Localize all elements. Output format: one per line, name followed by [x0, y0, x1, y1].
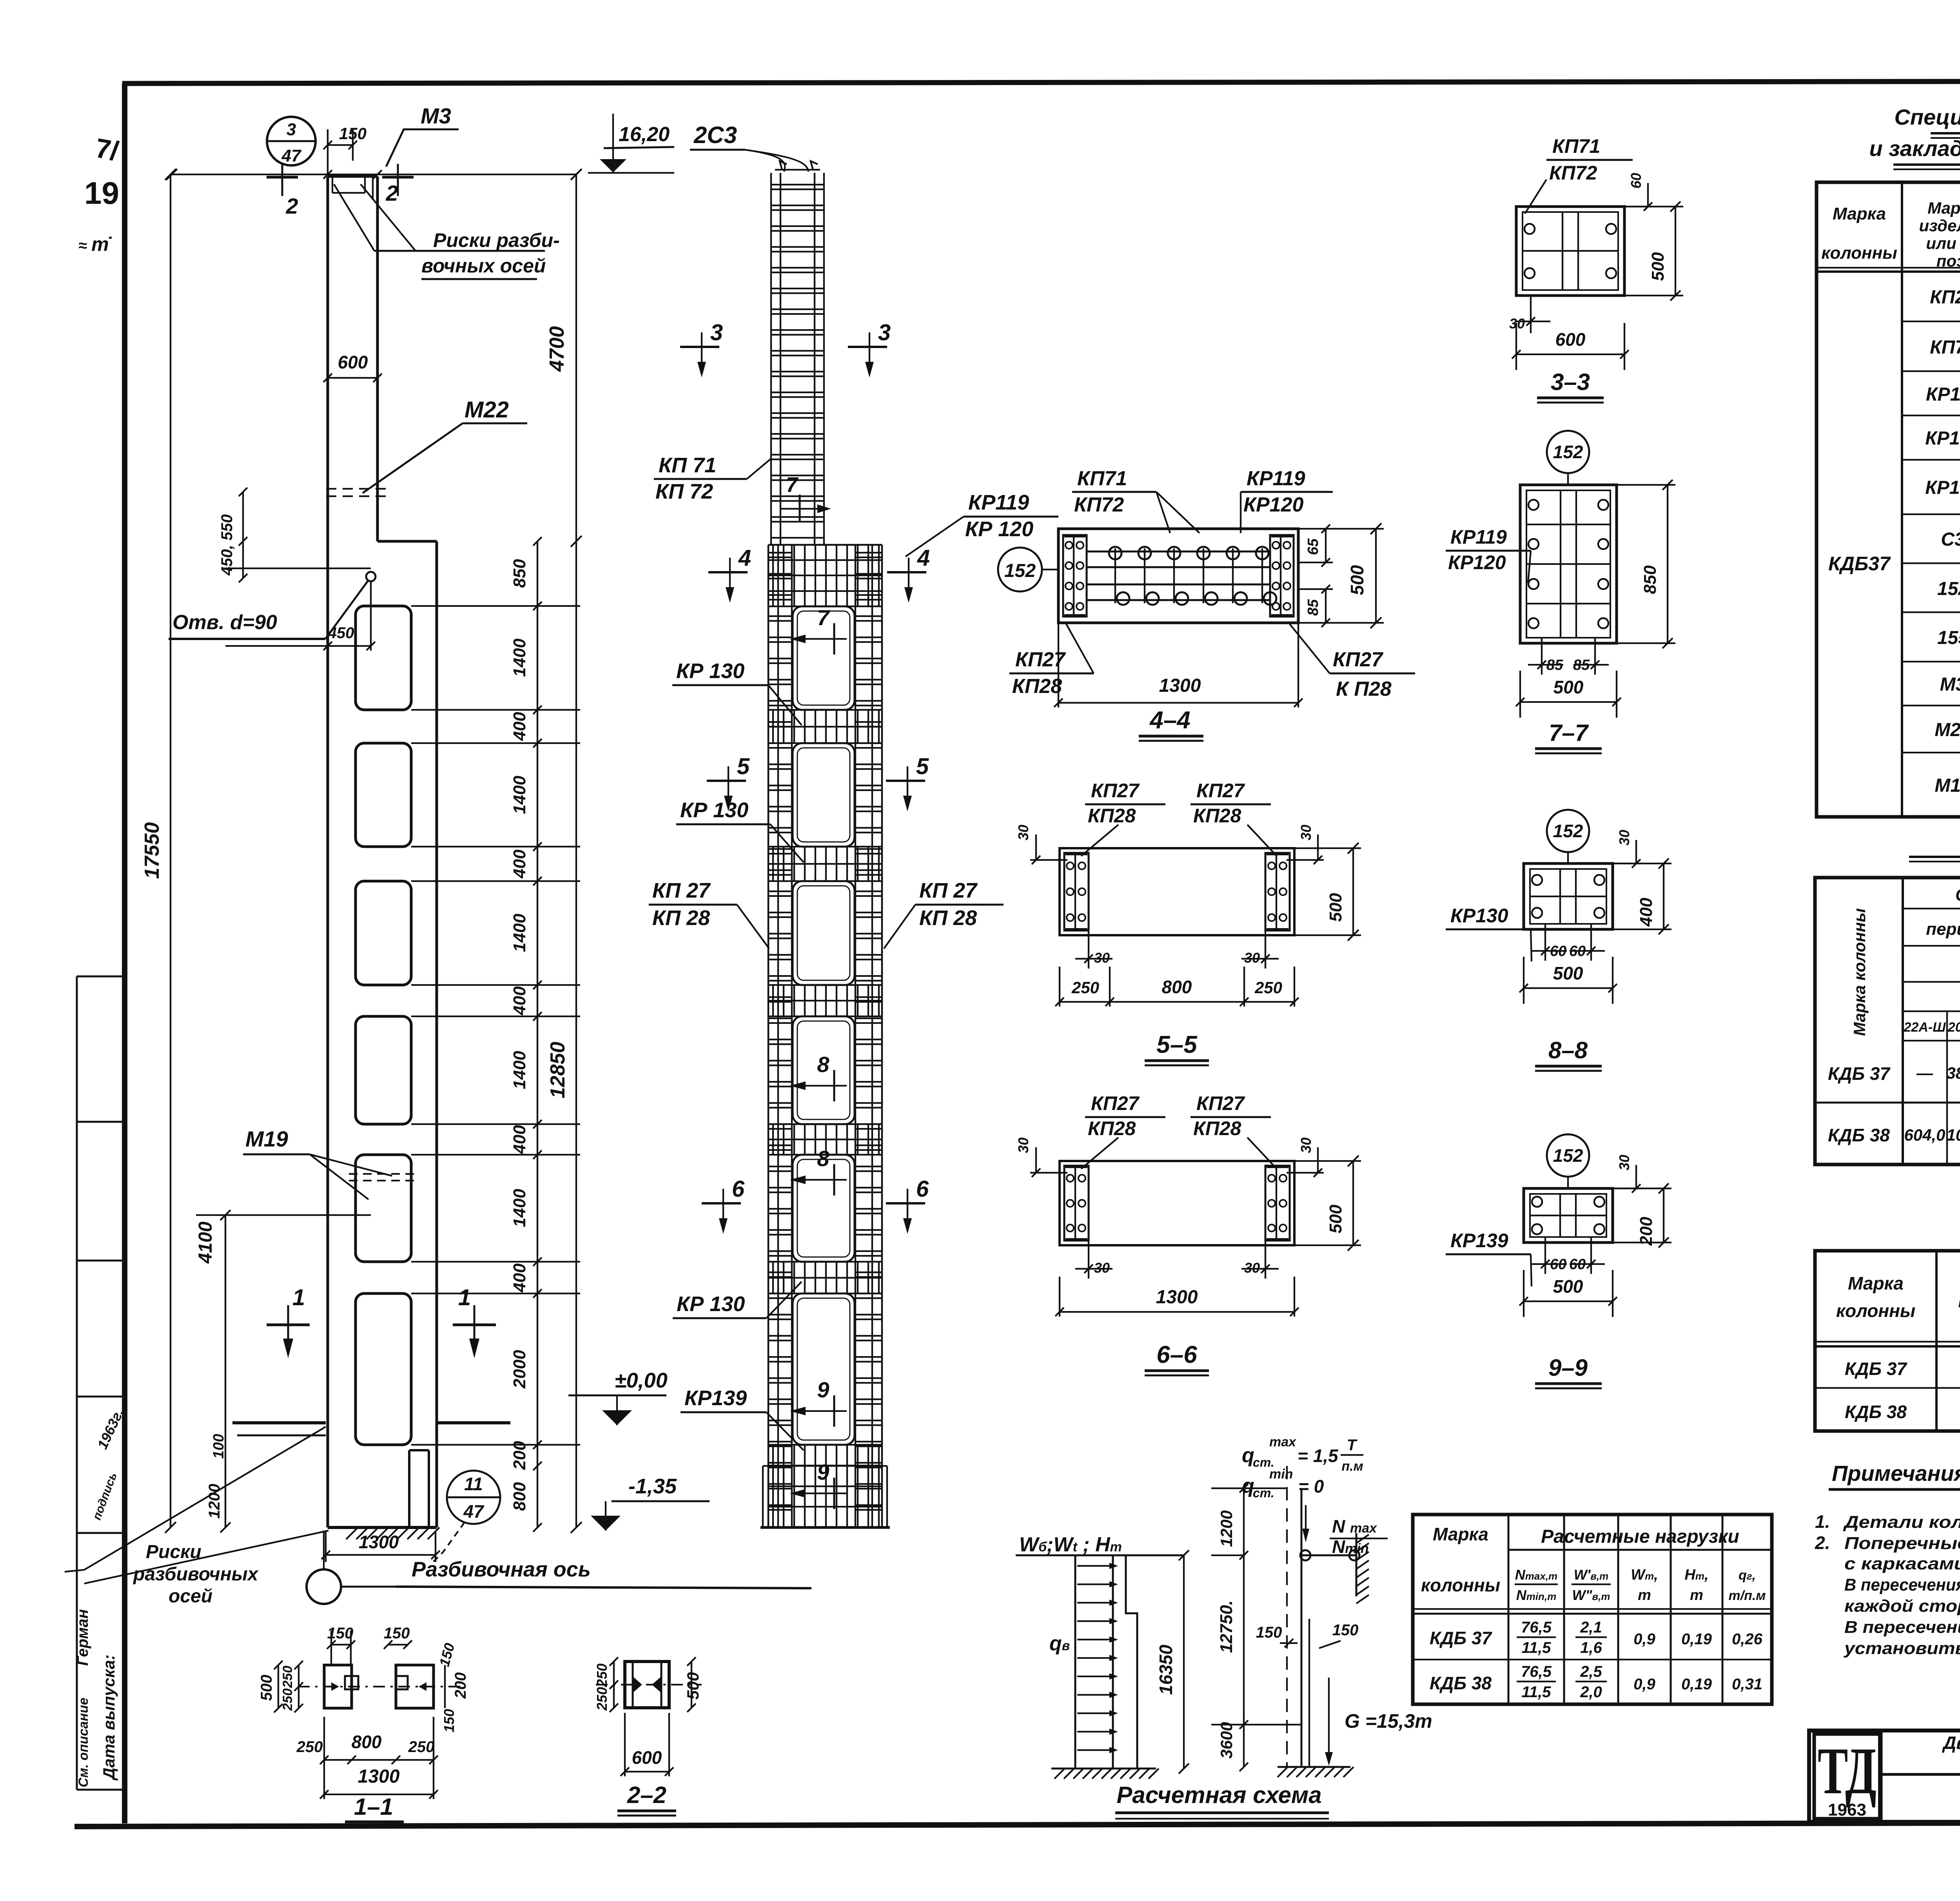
- section mark 1 right: [453, 1324, 496, 1326]
- title block: [1809, 1730, 1960, 1822]
- svg-text:250: 250: [594, 1663, 610, 1687]
- svg-text:разбивочных: разбивочных: [132, 1564, 259, 1585]
- svg-text:G =15,3т: G =15,3т: [1345, 1710, 1432, 1732]
- svg-text:Риски разби-: Риски разби-: [433, 229, 560, 251]
- svg-text:500: 500: [1326, 893, 1345, 922]
- svg-text:250: 250: [280, 1666, 295, 1689]
- svg-text:КР130: КР130: [1450, 905, 1508, 927]
- svg-text:400: 400: [510, 1263, 529, 1293]
- svg-text:КДБ 38: КДБ 38: [1828, 1125, 1890, 1145]
- svg-text:500: 500: [1553, 963, 1583, 983]
- C3 hooks at cage top: [775, 169, 820, 171]
- section 1-1: [324, 1665, 352, 1708]
- svg-text:6: 6: [916, 1176, 929, 1202]
- svg-text:КР130: КР130: [1925, 428, 1960, 449]
- sheet frame border: [122, 81, 1960, 83]
- svg-text:5: 5: [737, 754, 750, 779]
- svg-text:КП28: КП28: [1193, 1117, 1241, 1139]
- svg-text:с каркасами перемычек .: с каркасами перемычек .: [1844, 1554, 1960, 1573]
- svg-text:1: 1: [458, 1285, 471, 1310]
- left outer dim 17550 x=435: [170, 174, 171, 1527]
- svg-text:85: 85: [1305, 599, 1321, 616]
- dim 600: [328, 377, 377, 379]
- wall hatch: [1356, 1533, 1357, 1596]
- svg-text:М3: М3: [1940, 674, 1960, 695]
- svg-text:М3: М3: [421, 103, 451, 128]
- svg-text:76,5: 76,5: [1521, 1619, 1552, 1636]
- svg-text:250: 250: [594, 1687, 610, 1711]
- svg-text:КП71: КП71: [1930, 337, 1960, 358]
- 152 circle for 4-4: [998, 548, 1042, 591]
- svg-text:М19: М19: [1935, 775, 1960, 796]
- svg-text:0,26: 0,26: [1732, 1631, 1763, 1648]
- svg-text:КР120: КР120: [1243, 493, 1303, 516]
- svg-text:КР 120: КР 120: [965, 517, 1033, 541]
- svg-text:3: 3: [287, 120, 296, 139]
- right inner dim ladder x=1371: [537, 541, 538, 1527]
- svg-text:изделия: изделия: [1919, 216, 1960, 235]
- svg-text:47: 47: [463, 1501, 485, 1522]
- svg-text:800: 800: [352, 1732, 382, 1752]
- svg-text:500: 500: [1326, 1204, 1345, 1233]
- M22 embedded plate dashed: [326, 488, 386, 490]
- svg-text:min: min: [1269, 1467, 1293, 1482]
- svg-text:30: 30: [1298, 1137, 1314, 1153]
- svg-text:30: 30: [1094, 950, 1110, 966]
- svg-text:800: 800: [1162, 977, 1192, 997]
- svg-text:КДБ37: КДБ37: [1828, 553, 1891, 575]
- svg-text:382,4: 382,4: [1946, 1064, 1960, 1082]
- svg-text:600: 600: [338, 352, 368, 372]
- svg-text:2: 2: [385, 181, 398, 205]
- svg-text:-1,35: -1,35: [628, 1475, 677, 1498]
- svg-text:Расчетная схема: Расчетная схема: [1116, 1782, 1321, 1808]
- svg-text:КР120: КР120: [1448, 551, 1506, 573]
- cage base feet: [763, 1465, 887, 1467]
- svg-text:47: 47: [281, 146, 302, 165]
- svg-text:КР119: КР119: [1450, 526, 1507, 548]
- svg-text:250: 250: [296, 1738, 323, 1756]
- svg-text:400: 400: [1637, 898, 1656, 927]
- svg-text:152: 152: [1553, 821, 1583, 841]
- cage wide part: [768, 545, 769, 1527]
- section 3&#8211;3: [1516, 207, 1624, 296]
- section 9&#8211;9: [1524, 1188, 1613, 1243]
- svg-text:22А-Ш: 22А-Ш: [1904, 1020, 1946, 1035]
- svg-text:КП 27: КП 27: [652, 879, 711, 902]
- svg-text:600: 600: [1555, 329, 1586, 350]
- svg-text:2.: 2.: [1815, 1533, 1830, 1553]
- svg-text:КП28: КП28: [1088, 805, 1136, 827]
- svg-text:КДБ 37: КДБ 37: [1828, 1063, 1891, 1084]
- svg-text:Wб;Wt ; Нт: Wб;Wt ; Нт: [1019, 1533, 1122, 1556]
- svg-text:3600: 3600: [1217, 1722, 1236, 1758]
- svg-text:КП71: КП71: [1077, 467, 1127, 490]
- section 7&#8211;7: [1520, 485, 1617, 643]
- svg-text:Герман: Герман: [74, 1609, 91, 1666]
- svg-text:8: 8: [817, 1146, 829, 1171]
- svg-text:450: 450: [328, 624, 354, 642]
- svg-text:колонны: колонны: [1836, 1301, 1915, 1321]
- svg-text:К П28: К П28: [1336, 678, 1392, 700]
- svg-text:Детали колонн см . листы 47: Детали колонн см . листы 47,48и49.: [1842, 1513, 1960, 1532]
- svg-text:500: 500: [684, 1672, 702, 1700]
- svg-text:КДБ 38: КДБ 38: [1430, 1673, 1492, 1693]
- column base slot: [408, 1450, 410, 1527]
- indicators table: [1815, 1251, 1960, 1431]
- svg-text:4700: 4700: [546, 326, 568, 372]
- svg-text:2,1: 2,1: [1580, 1619, 1602, 1636]
- svg-text:КП 27: КП 27: [919, 879, 978, 902]
- svg-text:В пересечении ветвей с вер: В пересечении ветвей с верхней и нижней …: [1844, 1618, 1960, 1637]
- svg-text:500: 500: [1553, 1276, 1583, 1297]
- svg-text:11,5: 11,5: [1522, 1683, 1552, 1701]
- svg-text:М19: М19: [245, 1126, 288, 1151]
- svg-text:М22: М22: [1935, 720, 1960, 740]
- section 4-4: [1058, 529, 1298, 623]
- svg-text:ТД: ТД: [1818, 1734, 1877, 1808]
- svg-text:и закладных элементов на о: и закладных элементов на одну колонну: [1869, 136, 1960, 161]
- svg-text:периодического профиля: периодического профиля: [1926, 920, 1960, 939]
- svg-text:КП 28: КП 28: [652, 906, 710, 930]
- svg-text:КР 130: КР 130: [677, 1292, 745, 1316]
- svg-text:17550: 17550: [141, 822, 163, 879]
- svg-text:вочных осей: вочных осей: [421, 255, 546, 277]
- ground level lines at base: [232, 1421, 326, 1424]
- svg-text:65: 65: [1305, 538, 1321, 555]
- svg-text:п.м: п.м: [1341, 1459, 1363, 1474]
- svg-text:М22: М22: [465, 397, 509, 423]
- svg-text:С3: С3: [1941, 529, 1960, 550]
- svg-text:1400: 1400: [510, 1189, 529, 1227]
- svg-text:76,5: 76,5: [1521, 1663, 1552, 1680]
- left stamp strip: [76, 976, 78, 1790]
- svg-text:12750.: 12750.: [1217, 1600, 1236, 1653]
- svg-text:2: 2: [285, 194, 298, 218]
- dim 16350: [1183, 1555, 1185, 1769]
- svg-text:КП72: КП72: [1549, 162, 1597, 184]
- svg-text:150: 150: [1332, 1622, 1359, 1639]
- svg-text:КП 28: КП 28: [919, 906, 977, 930]
- svg-text:155: 155: [1937, 628, 1960, 648]
- svg-text:600: 600: [632, 1747, 662, 1768]
- svg-text:850: 850: [510, 559, 529, 588]
- svg-text:1,6: 1,6: [1580, 1639, 1602, 1656]
- svg-text:150: 150: [441, 1709, 457, 1732]
- svg-text:1400: 1400: [510, 776, 529, 814]
- svg-text:КР139: КР139: [1925, 477, 1960, 498]
- svg-text:колонны,: колонны,: [1958, 1291, 1960, 1311]
- svg-text:Отв. d=90: Отв. d=90: [172, 611, 277, 634]
- svg-text:19: 19: [84, 176, 119, 210]
- svg-text:±0,00: ±0,00: [615, 1369, 668, 1392]
- svg-text:осей: осей: [169, 1586, 212, 1607]
- circle mark 3/47: [267, 117, 316, 165]
- svg-text:КП28: КП28: [1012, 675, 1062, 698]
- svg-text:850: 850: [1641, 565, 1660, 594]
- svg-text:30: 30: [1015, 1137, 1031, 1153]
- left dim 4100 x=575: [225, 1215, 226, 1527]
- cage section marks: [680, 346, 719, 348]
- svg-text:Марка: Марка: [1848, 1273, 1904, 1293]
- svg-text:400: 400: [510, 986, 529, 1016]
- svg-text:2С3: 2С3: [693, 122, 737, 148]
- svg-text:800: 800: [510, 1482, 529, 1511]
- svg-text:400: 400: [510, 1125, 529, 1154]
- svg-text:1963: 1963: [1828, 1800, 1866, 1819]
- svg-text:2,0: 2,0: [1580, 1683, 1602, 1701]
- svg-text:установить только взамен: установить только взамен вырезанных стер…: [1844, 1639, 1960, 1658]
- svg-text:500: 500: [258, 1675, 275, 1701]
- svg-text:4100: 4100: [195, 1221, 216, 1264]
- load table: [1413, 1515, 1772, 1704]
- svg-text:колонны: колонны: [1821, 243, 1897, 263]
- svg-text:103,6: 103,6: [1946, 1126, 1960, 1144]
- ground hatch right: [1278, 1766, 1350, 1768]
- svg-text:500: 500: [1347, 565, 1367, 595]
- section 4-4 dims: [1325, 529, 1327, 562]
- svg-text:—: —: [1916, 1064, 1933, 1082]
- svg-text:КП71: КП71: [1552, 135, 1600, 157]
- svg-text:= 1,5: = 1,5: [1298, 1446, 1339, 1466]
- svg-text:Марка: Марка: [1833, 204, 1886, 223]
- svg-text:Марка: Марка: [1433, 1524, 1488, 1544]
- svg-text:КР139: КР139: [1450, 1230, 1508, 1252]
- svg-text:500: 500: [1553, 677, 1584, 697]
- section mark 1 left: [267, 1324, 310, 1326]
- svg-text:7: 7: [817, 605, 830, 630]
- section 2-2: [625, 1662, 669, 1708]
- svg-text:КР119: КР119: [1247, 467, 1305, 490]
- svg-text:4: 4: [738, 545, 751, 571]
- svg-text:Разбивочная ось: Разбивочная ось: [412, 1558, 591, 1581]
- hole Otv d=90: [366, 572, 376, 581]
- svg-text:Марка колонны: Марка колонны: [1850, 908, 1869, 1036]
- right diagram dims 1200 12750 3600: [1243, 1488, 1245, 1767]
- svg-text:1300: 1300: [358, 1766, 400, 1787]
- svg-text:0,19: 0,19: [1681, 1676, 1712, 1693]
- svg-text:каждой стороны по три доп: каждой стороны по три дополнительные шпи…: [1844, 1596, 1960, 1616]
- svg-text:т: т: [1638, 1587, 1651, 1604]
- svg-text:Стержневая арматура по ГОС: Стержневая арматура по ГОСТ5781-61: [1955, 885, 1960, 905]
- svg-text:500: 500: [1648, 252, 1668, 281]
- svg-text:9: 9: [817, 1377, 829, 1402]
- svg-text:т/п.м: т/п.м: [1728, 1588, 1766, 1603]
- section mark 7 outside (narrow part): [799, 495, 801, 521]
- svg-text:7–7: 7–7: [1549, 720, 1589, 746]
- razbivochnaya os circle and label: [307, 1569, 341, 1604]
- svg-text:30: 30: [1244, 950, 1260, 966]
- svg-text:1400: 1400: [510, 639, 529, 677]
- svg-text:КР119: КР119: [1926, 384, 1960, 405]
- svg-text:200: 200: [452, 1672, 469, 1699]
- svg-text:250: 250: [408, 1738, 435, 1756]
- section mark 2 left: [267, 176, 298, 179]
- svg-text:250: 250: [1254, 978, 1282, 997]
- svg-text:400: 400: [510, 849, 529, 879]
- svg-text:5: 5: [916, 754, 929, 779]
- svg-text:1200: 1200: [1217, 1510, 1236, 1547]
- right outer dim 4700 / 12850 x=1470: [575, 174, 577, 1527]
- svg-text:200: 200: [1637, 1217, 1656, 1246]
- svg-text:КДБ 37: КДБ 37: [1430, 1628, 1492, 1648]
- top dimension line y=445: [172, 174, 576, 175]
- svg-text:КР 130: КР 130: [676, 659, 744, 683]
- svg-text:Примечания:: Примечания:: [1832, 1461, 1960, 1486]
- svg-text:Двухветвевые колонны одноэт: Двухветвевые колонны одноэтажных бескран…: [1942, 1732, 1960, 1753]
- section 5&#8211;5: [1060, 848, 1294, 935]
- svg-text:3–3: 3–3: [1551, 369, 1590, 395]
- svg-text:11,5: 11,5: [1522, 1639, 1552, 1656]
- svg-text:152: 152: [1553, 1145, 1583, 1166]
- svg-text:152: 152: [1004, 561, 1036, 581]
- svg-text:152: 152: [1553, 442, 1583, 462]
- svg-text:9: 9: [817, 1460, 829, 1484]
- svg-text:КДБ 38: КДБ 38: [1845, 1402, 1907, 1422]
- svg-text:КП72: КП72: [1074, 493, 1124, 516]
- svg-text:4–4: 4–4: [1149, 707, 1190, 734]
- svg-text:колонны: колонны: [1421, 1575, 1500, 1595]
- extension lines from column to dim ladder: [411, 605, 580, 607]
- svg-text:250: 250: [1071, 978, 1099, 997]
- svg-text:100: 100: [211, 1434, 227, 1458]
- base ground hatch: [346, 1527, 358, 1539]
- svg-text:1400: 1400: [510, 914, 529, 952]
- svg-text:30: 30: [1616, 830, 1632, 845]
- svg-text:2000: 2000: [510, 1350, 529, 1389]
- section mark 2 right: [382, 176, 414, 179]
- svg-text:КП27: КП27: [1091, 780, 1140, 802]
- svg-text:1300: 1300: [1159, 675, 1201, 696]
- svg-text:КР139: КР139: [684, 1386, 747, 1410]
- svg-text:0,19: 0,19: [1681, 1631, 1712, 1648]
- svg-text:5–5: 5–5: [1156, 1031, 1198, 1058]
- svg-text:12850: 12850: [546, 1042, 569, 1099]
- svg-text:КП27: КП27: [1091, 1092, 1140, 1114]
- svg-text:30: 30: [1094, 1260, 1110, 1276]
- svg-text:См. описание: См. описание: [76, 1698, 91, 1787]
- svg-text:4: 4: [917, 545, 930, 571]
- svg-text:16,20: 16,20: [619, 123, 670, 146]
- svg-text:т: т: [1690, 1587, 1703, 1604]
- svg-text:6–6: 6–6: [1156, 1341, 1197, 1368]
- svg-text:КДБ 37: КДБ 37: [1845, 1359, 1907, 1379]
- svg-text:Дата выпуска:: Дата выпуска:: [100, 1654, 118, 1781]
- specification table: [1817, 182, 1960, 817]
- svg-text:qг,: qг,: [1739, 1568, 1756, 1583]
- svg-text:20А-П: 20А-П: [1947, 1020, 1960, 1035]
- section 6&#8211;6: [1060, 1161, 1294, 1245]
- svg-text:КП28: КП28: [1088, 1117, 1136, 1139]
- svg-text:Спецификация марок арматурны: Спецификация марок арматурных изделий: [1894, 105, 1960, 129]
- svg-text:450, 550: 450, 550: [218, 514, 236, 576]
- svg-text:КП27: КП27: [1196, 780, 1245, 802]
- svg-text:3: 3: [878, 320, 891, 345]
- svg-text:2,5: 2,5: [1580, 1663, 1602, 1680]
- svg-text:11: 11: [464, 1474, 483, 1494]
- svg-text:КР 130: КР 130: [680, 798, 748, 822]
- column openings: [356, 606, 411, 710]
- svg-text:150: 150: [1256, 1624, 1282, 1641]
- svg-text:9–9: 9–9: [1548, 1355, 1588, 1381]
- svg-text:КП 72: КП 72: [655, 480, 713, 503]
- svg-text:8: 8: [817, 1052, 829, 1077]
- svg-text:6: 6: [732, 1176, 745, 1202]
- svg-text:30: 30: [1244, 1260, 1260, 1276]
- column top cap detail M3 plate: [332, 176, 333, 193]
- svg-text:30: 30: [1015, 825, 1031, 840]
- svg-text:0,9: 0,9: [1633, 1676, 1655, 1693]
- svg-text:КП27: КП27: [1930, 287, 1960, 308]
- dim 1300 under base: [326, 1554, 436, 1556]
- svg-text:Т: Т: [1347, 1437, 1358, 1454]
- svg-text:250: 250: [280, 1689, 295, 1711]
- svg-text:Марка: Марка: [1927, 199, 1960, 217]
- svg-text:max: max: [1269, 1435, 1297, 1449]
- svg-text:1400: 1400: [510, 1051, 529, 1089]
- svg-text:1.: 1.: [1815, 1511, 1830, 1532]
- svg-text:0,9: 0,9: [1633, 1631, 1655, 1648]
- svg-text:60: 60: [1628, 173, 1644, 189]
- svg-text:2–2: 2–2: [627, 1782, 666, 1808]
- svg-text:30: 30: [1616, 1155, 1632, 1170]
- svg-text:7: 7: [786, 473, 799, 497]
- svg-text:150: 150: [384, 1625, 410, 1642]
- svg-text:0,31: 0,31: [1732, 1676, 1762, 1693]
- dim 450 (hole): [225, 645, 371, 647]
- svg-text:3: 3: [710, 320, 723, 345]
- svg-text:30: 30: [1298, 825, 1314, 840]
- svg-text:q: q: [1242, 1444, 1254, 1467]
- ground hatch left: [1051, 1768, 1156, 1770]
- svg-text:Расчетные нагрузки: Расчетные нагрузки: [1541, 1526, 1739, 1547]
- svg-text:30: 30: [1509, 316, 1525, 332]
- svg-text:КП28: КП28: [1193, 805, 1241, 827]
- steel table: [1815, 878, 1960, 1165]
- rebar cage narrow top part: [770, 173, 772, 545]
- svg-text:или №: или №: [1926, 234, 1960, 252]
- svg-text:поз.: поз.: [1936, 252, 1960, 270]
- svg-text:В пересечениях ветвей с ,рядо: В пересечениях ветвей с ,рядовыми перемы…: [1844, 1575, 1960, 1594]
- section 8&#8211;8: [1524, 863, 1613, 929]
- circle 11/47: [447, 1471, 500, 1524]
- svg-text:КП27: КП27: [1196, 1092, 1245, 1114]
- svg-text:8–8: 8–8: [1548, 1037, 1588, 1063]
- svg-text:604,0: 604,0: [1904, 1126, 1945, 1144]
- svg-text:16350: 16350: [1156, 1645, 1176, 1695]
- svg-text:400: 400: [510, 712, 529, 741]
- svg-text:Поперечные стержни каркасов: Поперечные стержни каркасов ветвей вырез…: [1844, 1534, 1960, 1553]
- svg-text:1300: 1300: [1156, 1287, 1198, 1308]
- svg-text:КП27: КП27: [1333, 648, 1383, 671]
- svg-text:1: 1: [292, 1285, 305, 1310]
- svg-text:1–1: 1–1: [354, 1794, 393, 1820]
- column elevation KDB37 outline: [327, 176, 329, 1527]
- svg-text:КП 71: КП 71: [659, 453, 716, 477]
- svg-text:152: 152: [1937, 579, 1960, 599]
- svg-text:КР119: КР119: [968, 491, 1029, 514]
- svg-text:Wт,: Wт,: [1631, 1567, 1658, 1583]
- svg-text:1300: 1300: [359, 1532, 399, 1552]
